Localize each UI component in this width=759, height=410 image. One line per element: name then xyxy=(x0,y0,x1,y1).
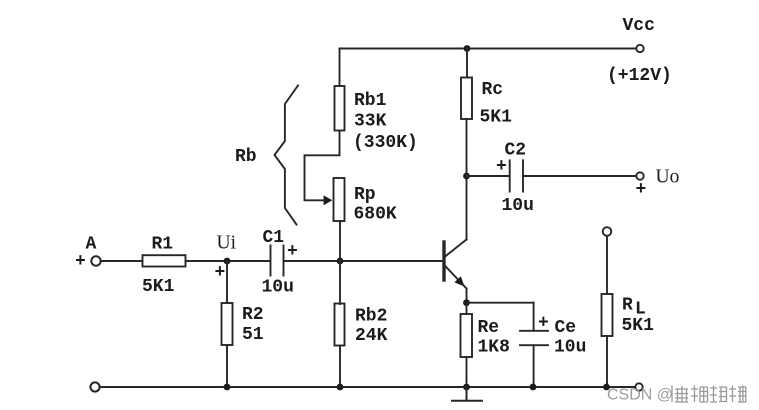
node emitter xyxy=(463,299,470,306)
potentiometer Rp xyxy=(334,178,345,221)
wire collector line xyxy=(466,119,468,240)
wire Ce top lead xyxy=(533,303,535,331)
svg-text:680K: 680K xyxy=(354,205,397,225)
svg-text:5K1: 5K1 xyxy=(142,277,175,297)
svg-text:Ce: Ce xyxy=(555,318,577,338)
svg-text:Rc: Rc xyxy=(482,80,504,100)
svg-text:Uo: Uo xyxy=(656,167,680,188)
svg-text:10u: 10u xyxy=(262,278,294,298)
svg-text:Ui: Ui xyxy=(217,233,237,254)
wire C2 to Uo xyxy=(524,175,636,177)
node junction top rail / Rc xyxy=(464,45,471,52)
svg-text:+: + xyxy=(496,157,507,177)
wire RL bottom lead xyxy=(606,336,608,387)
terminal RL top xyxy=(603,227,612,236)
node rail Rb2 xyxy=(337,384,344,391)
resistor Re xyxy=(461,314,473,357)
svg-text:+: + xyxy=(538,314,549,334)
wire top rail Vcc xyxy=(340,48,636,50)
resistor R2 xyxy=(222,303,233,345)
node rail Re xyxy=(463,384,470,391)
transistor Q1 emitter diagonal xyxy=(446,267,467,289)
wire R2 bottom lead xyxy=(226,345,228,387)
wire Rb2 bottom lead xyxy=(339,346,341,388)
wire to C2 xyxy=(467,175,510,177)
wire R2 top lead xyxy=(226,261,228,303)
resistor Rc xyxy=(461,78,472,120)
svg-text:C2: C2 xyxy=(505,141,527,161)
svg-text:Re: Re xyxy=(478,318,500,338)
svg-text:R1: R1 xyxy=(152,234,174,254)
node rail Ce xyxy=(530,384,537,391)
terminal Vcc xyxy=(636,45,643,52)
svg-text:A: A xyxy=(86,234,97,254)
terminal bottom-right xyxy=(635,383,642,390)
wiper arrowhead into Rp xyxy=(324,195,333,205)
svg-text:+: + xyxy=(75,252,86,272)
wire Rb1-to-Rp wiper jog xyxy=(305,155,340,200)
wire Rb1 top lead xyxy=(339,49,341,87)
resistor Rb2 xyxy=(335,304,345,346)
svg-text:C1: C1 xyxy=(263,228,285,248)
svg-text:+: + xyxy=(215,263,226,283)
wire Ce bottom lead xyxy=(533,345,535,387)
wire Rb2 top lead xyxy=(339,261,341,304)
ground symbol xyxy=(452,387,482,401)
svg-text:5K1: 5K1 xyxy=(480,108,513,128)
transistor Q1 collector diagonal xyxy=(446,240,467,257)
svg-text:CSDN @: CSDN @ xyxy=(607,387,673,404)
wire emitter down lead xyxy=(466,289,468,303)
wire A to R1 xyxy=(101,260,143,262)
node C2 tap xyxy=(463,173,470,180)
svg-text:5K1: 5K1 xyxy=(622,316,655,336)
svg-text:Rb2: Rb2 xyxy=(355,307,387,327)
node base/Rb2 junction xyxy=(337,258,344,265)
wire Rp bottom lead to base node xyxy=(339,221,341,261)
svg-text:Vcc: Vcc xyxy=(623,16,655,36)
transistor Q1 emitter arrowhead xyxy=(454,276,464,286)
resistor RL xyxy=(602,294,613,336)
transistor Q1 base bar xyxy=(442,242,445,280)
node rail RL xyxy=(603,384,610,391)
svg-text:10u: 10u xyxy=(554,338,586,358)
svg-text:R2: R2 xyxy=(242,305,264,325)
wire emitter to Ce xyxy=(467,302,534,304)
svg-text:24K: 24K xyxy=(355,326,388,346)
watermark CJK glyph blocks xyxy=(672,386,746,403)
capacitor C1 xyxy=(271,246,284,276)
svg-text:10u: 10u xyxy=(502,196,534,216)
svg-text:Rb1: Rb1 xyxy=(354,91,387,111)
svg-text:(330K): (330K) xyxy=(353,133,418,153)
svg-text:1K8: 1K8 xyxy=(478,338,510,358)
terminal A input xyxy=(91,256,100,265)
wire Re bottom lead xyxy=(466,357,468,387)
wire C1 to base xyxy=(284,260,443,262)
brace Rb group xyxy=(275,86,299,225)
wire Rc top lead xyxy=(466,49,468,78)
resistor Rb1 xyxy=(335,86,345,131)
wire RL top lead xyxy=(606,236,608,294)
svg-text:33K: 33K xyxy=(354,112,387,132)
terminal bottom-left xyxy=(90,382,99,391)
capacitor Ce xyxy=(520,331,548,345)
node Ui xyxy=(224,258,231,265)
node rail R2 xyxy=(224,384,231,391)
svg-text:+: + xyxy=(287,242,298,262)
wire bottom ground rail xyxy=(100,386,635,388)
svg-text:(+12V): (+12V) xyxy=(607,66,672,86)
resistor R1 xyxy=(143,255,186,266)
capacitor C2 xyxy=(510,160,523,191)
svg-text:+: + xyxy=(636,180,647,200)
svg-text:R: R xyxy=(622,296,633,316)
wire R1 to C1 xyxy=(186,260,271,262)
terminal Uo xyxy=(636,172,643,179)
wire Re top lead xyxy=(466,303,468,314)
svg-text:Rp: Rp xyxy=(354,185,376,205)
svg-text:Rb: Rb xyxy=(235,147,257,167)
svg-text:51: 51 xyxy=(242,325,264,345)
wire Rb1 bottom lead xyxy=(339,131,341,156)
